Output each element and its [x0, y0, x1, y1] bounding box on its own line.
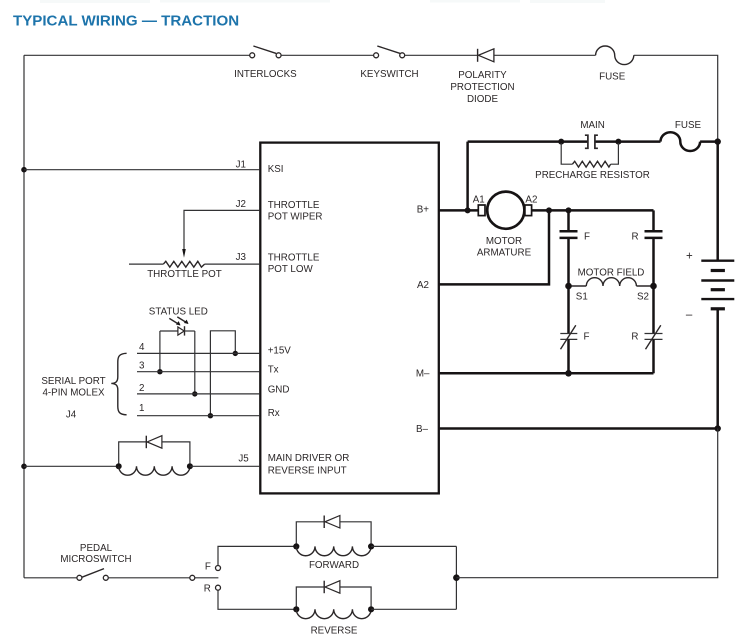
svg-text:THROTTLE: THROTTLE: [268, 253, 320, 264]
inductor motor field winding: [569, 278, 654, 286]
diode flyback across FORWARD coil (points left): [296, 516, 371, 544]
wire: S1 leg to bottom row: [567, 339, 570, 373]
junction dots on MAIN row: [558, 139, 621, 145]
node S1: [565, 283, 588, 303]
capacitor R (top): [645, 210, 663, 286]
wire: top fuse to right rail corner: [634, 55, 718, 140]
svg-text:4: 4: [139, 342, 145, 353]
wire: battery positive lead: [716, 142, 719, 261]
svg-text:–: –: [686, 309, 693, 321]
pin label MAIN DRIVER OR REVERSE INPUT: [268, 453, 350, 477]
svg-text:B–: B–: [416, 424, 429, 435]
wire: B+ from controller to motor A1: [439, 209, 479, 212]
junction field F branch tap: [566, 207, 572, 213]
switch INTERLOCKS: [250, 46, 281, 58]
svg-text:B+: B+: [417, 205, 430, 216]
diode flyback across J5 coil (points left): [119, 436, 190, 464]
resistor PRECHARGE bypass: [561, 143, 618, 167]
fuse FUSE (top): [596, 46, 634, 65]
svg-text:DIODE: DIODE: [467, 94, 498, 105]
svg-text:J3: J3: [236, 252, 247, 263]
junction M− row / S1 leg: [565, 370, 572, 377]
svg-text:FORWARD: FORWARD: [309, 560, 359, 571]
svg-text:POT WIPER: POT WIPER: [268, 212, 323, 223]
svg-text:MOTOR FIELD: MOTOR FIELD: [578, 268, 645, 279]
junction right rail / fuse row: [715, 138, 721, 144]
wire: forward coil to merge rail: [371, 545, 456, 547]
svg-text:FUSE: FUSE: [599, 72, 626, 83]
label POLARITY PROTECTION DIODE: [450, 70, 514, 105]
pin label THROTTLE POT WIPER: [268, 200, 323, 223]
wire: S2 leg to bottom row: [652, 339, 655, 373]
junction merge rail: [453, 574, 460, 581]
svg-text:FUSE: FUSE: [675, 120, 702, 131]
svg-text:1: 1: [139, 403, 144, 414]
wire: J2 throttle pot wiper to controller: [184, 210, 259, 249]
variable capacitor F (bottom): [560, 325, 577, 349]
wire: LED cathode leg to pin 2: [192, 331, 197, 397]
pin 2 wire GND: [137, 393, 259, 395]
svg-text:MICROSWITCH: MICROSWITCH: [60, 554, 131, 565]
brace J4 connector: [111, 353, 126, 415]
faint cropped header remnants: [40, 0, 605, 3]
svg-text:S1: S1: [576, 292, 588, 303]
battery BT1: [701, 261, 734, 309]
wire: B− row from controller to battery rail: [439, 427, 718, 430]
label PEDAL MICROSWITCH: [60, 543, 131, 565]
pin 1 wire Rx: [137, 415, 259, 417]
svg-text:ARMATURE: ARMATURE: [477, 247, 532, 258]
svg-text:KEYSWITCH: KEYSWITCH: [360, 69, 418, 80]
coil main contactor drive: [116, 463, 193, 475]
svg-text:PEDAL: PEDAL: [80, 543, 113, 554]
motor armature M1: [478, 192, 531, 229]
wire: F contact to forward coil: [218, 546, 296, 565]
svg-text:SERIAL PORT: SERIAL PORT: [41, 376, 105, 387]
wire: left bus vertical B+ supply: [23, 55, 25, 578]
diode flyback across REVERSE coil (points left): [296, 581, 371, 607]
wire: pedal switch to selector common: [108, 577, 190, 579]
wire: merge rail vertical: [455, 546, 457, 609]
svg-text:A2: A2: [417, 280, 429, 291]
node S2: [637, 283, 657, 303]
svg-text:M–: M–: [416, 369, 430, 380]
pin 4 wire +15V: [137, 352, 259, 354]
wire: J5 tap from left bus: [21, 464, 119, 470]
svg-text:A1: A1: [473, 195, 485, 206]
wire: S1 leg down: [567, 286, 570, 334]
wire: interlocks to keyswitch: [281, 54, 374, 56]
svg-text:GND: GND: [268, 385, 290, 396]
svg-text:J4: J4: [66, 409, 77, 420]
svg-text:THROTTLE: THROTTLE: [268, 200, 320, 211]
switch PEDAL MICROSWITCH: [77, 569, 108, 581]
svg-text:POT LOW: POT LOW: [268, 264, 314, 275]
switch F/R selector common pole: [190, 575, 219, 580]
switch KEYSWITCH: [374, 46, 405, 58]
svg-text:MAIN: MAIN: [580, 120, 605, 131]
svg-text:3: 3: [139, 360, 145, 371]
contact MAIN (tips): [585, 135, 598, 148]
svg-text:THROTTLE POT: THROTTLE POT: [147, 269, 222, 280]
junction motor out / A2 riser: [546, 207, 552, 213]
resistor THROTTLE POT: [129, 261, 259, 267]
pin 3 wire Tx: [137, 371, 259, 373]
svg-text:J2: J2: [236, 199, 246, 210]
LED D-status (triangle, bar, rays): [160, 317, 195, 336]
svg-text:F: F: [584, 332, 590, 343]
controller box U1: [260, 143, 439, 494]
wire: MAIN contactor row: [468, 140, 661, 143]
wire: top row from left bus to interlocks: [24, 54, 250, 56]
wire: merge rail to battery negative return: [456, 429, 717, 578]
svg-text:S2: S2: [637, 292, 649, 303]
svg-text:STATUS LED: STATUS LED: [149, 306, 208, 317]
svg-text:2: 2: [139, 383, 144, 394]
label SERIAL PORT 4-PIN MOLEX: [41, 376, 105, 399]
coil FORWARD contactor: [293, 543, 374, 555]
junction B− / battery rail: [715, 425, 721, 431]
wire: S2 leg down: [652, 286, 655, 334]
svg-text:R: R: [631, 232, 638, 243]
wire: keyswitch to polarity diode: [405, 54, 478, 56]
wire: B+ riser to MAIN row: [466, 142, 469, 211]
variable capacitor R (bottom): [645, 325, 663, 349]
wiper arrowhead: [182, 249, 186, 258]
wire: motor A2 to field network top: [532, 209, 654, 212]
svg-text:Rx: Rx: [268, 408, 280, 419]
svg-text:INTERLOCKS: INTERLOCKS: [234, 69, 297, 80]
svg-text:REVERSE INPUT: REVERSE INPUT: [268, 466, 347, 477]
wire: reverse coil to merge rail: [371, 608, 456, 610]
svg-text:R: R: [631, 332, 638, 343]
svg-text:Tx: Tx: [268, 365, 279, 376]
svg-text:+15V: +15V: [268, 346, 292, 357]
coil REVERSE contactor: [293, 606, 374, 618]
svg-text:KSI: KSI: [268, 164, 284, 175]
capacitor F (top): [560, 210, 578, 286]
svg-text:MOTOR: MOTOR: [486, 236, 522, 247]
svg-text:A2: A2: [525, 195, 537, 206]
wire: fuse to right rail junction: [700, 140, 718, 143]
fuse FUSE (battery row): [661, 132, 701, 151]
pin label THROTTLE POT LOW: [268, 253, 320, 276]
svg-text:REVERSE: REVERSE: [311, 626, 358, 637]
svg-text:POLARITY: POLARITY: [458, 70, 507, 81]
wire: LED anode leg to pin 3: [157, 331, 162, 374]
svg-text:F: F: [584, 232, 590, 243]
wire: R contact to reverse coil: [218, 590, 296, 609]
diode POLARITY PROTECTION (points left): [478, 49, 494, 62]
wire: jumper loop pin 1 to pin 4: [208, 331, 238, 419]
svg-text:PROTECTION: PROTECTION: [450, 82, 514, 93]
svg-text:J5: J5: [238, 454, 249, 465]
svg-text:F: F: [205, 561, 211, 572]
svg-text:TYPICAL WIRING — TRACTION: TYPICAL WIRING — TRACTION: [13, 13, 239, 30]
svg-text:4-PIN MOLEX: 4-PIN MOLEX: [42, 388, 105, 399]
node F contact: [205, 561, 221, 572]
svg-text:PRECHARGE RESISTOR: PRECHARGE RESISTOR: [535, 170, 650, 181]
wire: J1 tap from left bus to controller KSI: [21, 167, 259, 173]
label MOTOR ARMATURE: [477, 236, 532, 258]
wire: bus bottom corner to pedal switch: [24, 577, 77, 579]
svg-text:+: +: [686, 250, 693, 262]
wire: battery negative lead: [716, 309, 719, 429]
wire: A2 riser and run to controller A2: [439, 210, 549, 284]
svg-text:R: R: [204, 583, 211, 594]
wire: coil to controller J5 input: [190, 465, 259, 467]
node R contact: [204, 583, 221, 594]
svg-text:J1: J1: [236, 159, 246, 170]
junction B+ riser: [465, 207, 471, 213]
svg-text:MAIN DRIVER OR: MAIN DRIVER OR: [268, 453, 350, 464]
wire: diode to top fuse: [494, 54, 596, 56]
wire: M− row from controller to field network: [439, 372, 654, 375]
